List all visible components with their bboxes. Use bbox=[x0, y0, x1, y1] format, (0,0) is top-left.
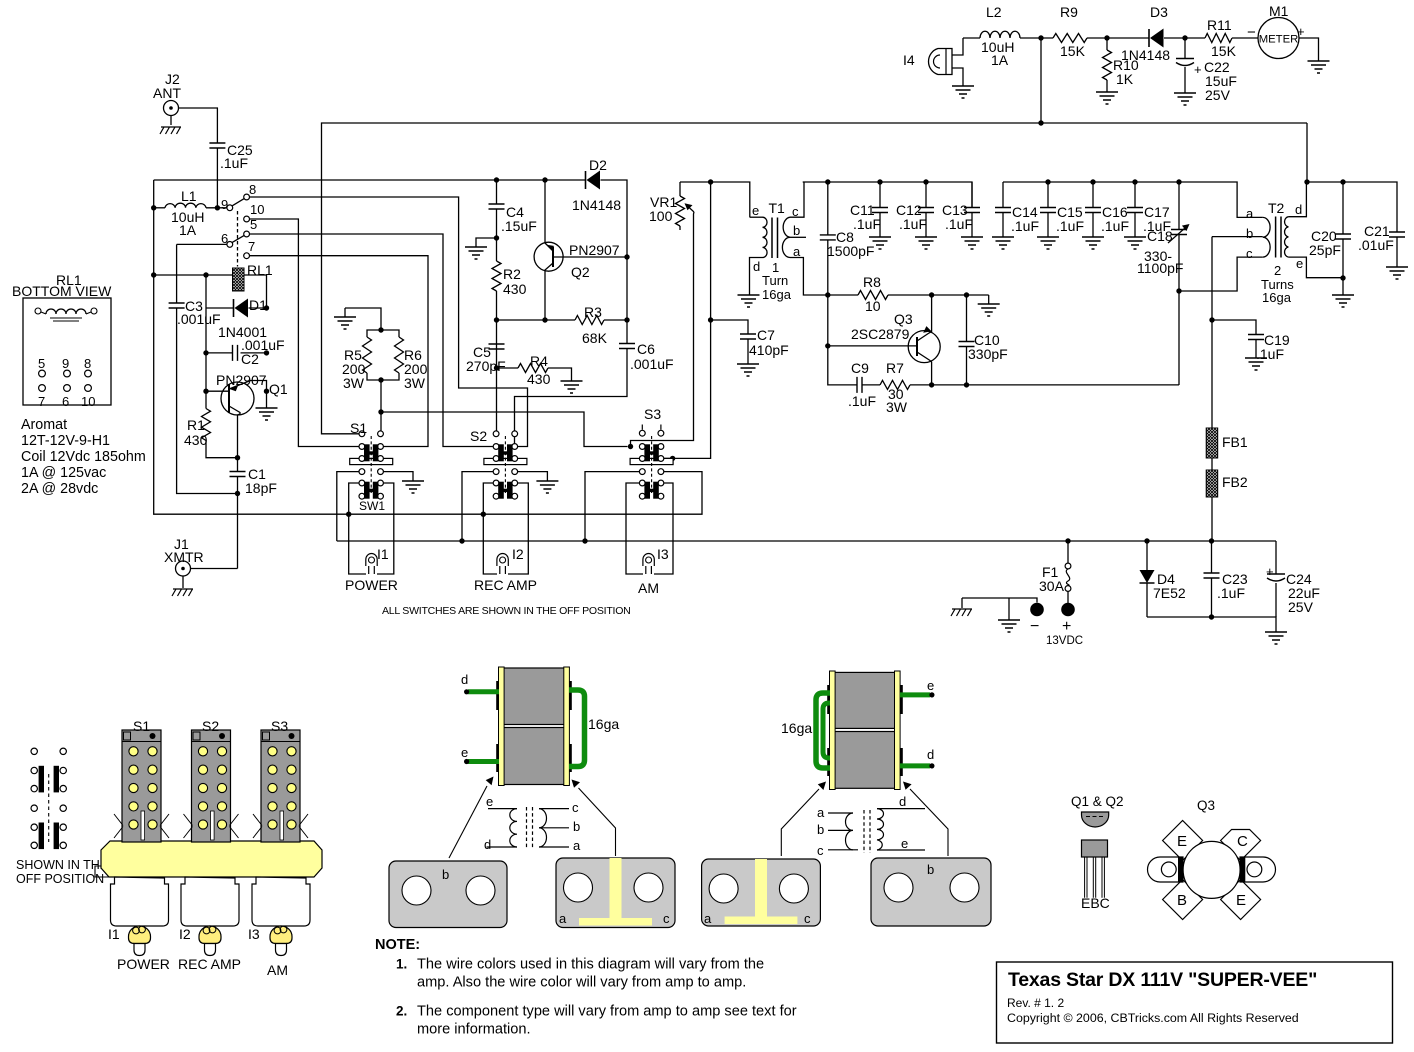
wire J2 to ground bbox=[170, 116, 172, 126]
svg-text:T2: T2 bbox=[1268, 200, 1285, 216]
svg-text:I1: I1 bbox=[108, 926, 120, 942]
svg-text:b: b bbox=[817, 822, 824, 837]
svg-text:The component type will vary f: The component type will vary from amp to… bbox=[417, 1004, 797, 1020]
svg-text:AM: AM bbox=[267, 962, 288, 978]
node L2/R9 meter feed bbox=[1038, 35, 1043, 40]
capacitor C12 bbox=[925, 182, 927, 208]
svg-text:10: 10 bbox=[81, 394, 95, 409]
svg-text:410pF: 410pF bbox=[749, 342, 789, 358]
node C20 top bbox=[1340, 179, 1345, 184]
resistor R3 bbox=[575, 316, 604, 325]
switch S3 section 2 contacts bbox=[639, 480, 645, 486]
transformer T2 physical wire e (green) bbox=[900, 692, 930, 697]
node C4/R2 bbox=[494, 235, 499, 240]
capacitor C23 bbox=[1211, 541, 1213, 573]
wire to L2 bbox=[963, 37, 980, 39]
svg-text:AM: AM bbox=[638, 580, 659, 596]
svg-text:R2: R2 bbox=[503, 266, 521, 282]
node Q3 emitter bottom bbox=[929, 382, 934, 387]
svg-text:METER: METER bbox=[1259, 34, 1299, 46]
physical switch S3 contact holes bbox=[268, 747, 277, 756]
svg-text:a: a bbox=[559, 911, 567, 926]
node C16 top bbox=[1090, 179, 1095, 184]
svg-text:b: b bbox=[573, 819, 580, 834]
svg-text:d: d bbox=[1295, 202, 1302, 217]
physical switch S2 slot and tabs bbox=[211, 811, 215, 840]
lamp I4 bbox=[929, 49, 952, 75]
node C8 top bbox=[825, 179, 830, 184]
node Q3 collector top bbox=[929, 292, 934, 297]
svg-text:7: 7 bbox=[38, 394, 45, 409]
switch S2 section 1 contacts bbox=[493, 444, 499, 450]
lamp box I3 bbox=[626, 483, 643, 574]
transformer T1 physical loop (green) bbox=[569, 690, 585, 767]
T1 winding schematic core dashed bbox=[527, 807, 533, 849]
svg-text:I1: I1 bbox=[377, 546, 389, 562]
svg-text:a: a bbox=[704, 911, 712, 926]
wire R2 to C5 bbox=[496, 291, 498, 344]
resistor R9 bbox=[1053, 34, 1087, 43]
title block box bbox=[997, 962, 1393, 1043]
wire minus jack to grounds bbox=[962, 598, 1037, 603]
svg-text:8: 8 bbox=[249, 182, 256, 197]
svg-text:R1: R1 bbox=[187, 417, 205, 433]
capacitor C22 (polarized) bbox=[1184, 38, 1186, 59]
svg-text:e: e bbox=[752, 203, 759, 218]
wire I4 bottom leg bbox=[952, 68, 963, 86]
off-position symbol section B bbox=[39, 823, 44, 850]
node Q1 collector / C1 bbox=[235, 455, 240, 460]
Q1 emitter with arrow bbox=[229, 381, 267, 392]
ground near 13VDC bbox=[998, 620, 1020, 632]
T1 winding schematic secondary bbox=[539, 809, 547, 847]
physical switch S1 slot and tabs bbox=[141, 811, 145, 840]
node VR1/T1/C7 top bbox=[708, 179, 713, 184]
relay contact pin 6 bbox=[227, 242, 233, 248]
node F1 tap bbox=[1065, 538, 1070, 543]
wire pin6 to C3 bbox=[177, 243, 227, 245]
capacitor C10 bbox=[966, 295, 968, 342]
ground below C20 bbox=[1332, 295, 1354, 307]
svg-text:S2: S2 bbox=[470, 428, 487, 444]
svg-text:.1uF: .1uF bbox=[1256, 346, 1284, 362]
switch S2 symbol bbox=[493, 431, 499, 437]
svg-text:Rev. # 1. 2: Rev. # 1. 2 bbox=[1007, 996, 1064, 1010]
wire T1 c up to rail bbox=[790, 182, 804, 217]
variable capacitor C18 bbox=[1178, 182, 1180, 230]
off-position switch symbol bbox=[31, 748, 37, 754]
node C18 bottom bbox=[1176, 288, 1181, 293]
resistor R1 bbox=[202, 409, 211, 441]
node C10 bottom bbox=[964, 382, 969, 387]
node S3 right wire junction bbox=[670, 456, 675, 461]
transformer T1 secondary bbox=[782, 217, 790, 257]
svg-text:c: c bbox=[804, 911, 811, 926]
wire R3 to C6 bbox=[604, 319, 627, 321]
svg-text:9: 9 bbox=[62, 356, 69, 371]
node Q2 base junction bbox=[624, 254, 629, 259]
Q1/Q2 package TO-92 body bbox=[1082, 840, 1108, 857]
T1 winding schematic primary bbox=[510, 809, 517, 847]
ground feeding R5/R6 bbox=[334, 317, 356, 329]
svg-text:L1: L1 bbox=[181, 188, 197, 204]
ground right of S1 bbox=[402, 481, 424, 493]
svg-text:I3: I3 bbox=[657, 546, 669, 562]
wire RL1 coil top feed y=275 bbox=[154, 274, 233, 276]
svg-text:REC AMP: REC AMP bbox=[474, 577, 537, 593]
capacitor C15 bbox=[1047, 182, 1049, 208]
node C15 top bbox=[1045, 179, 1050, 184]
svg-text:c: c bbox=[817, 843, 824, 858]
node rail junction bbox=[1038, 120, 1043, 125]
node L1 left junction bbox=[151, 205, 156, 210]
node C17 top bbox=[1132, 179, 1137, 184]
switch S1 symbol bbox=[359, 431, 365, 437]
capacitor C13 bbox=[971, 182, 973, 208]
svg-text:PN2907: PN2907 bbox=[216, 372, 267, 388]
capacitor C4 bbox=[496, 180, 498, 204]
svg-text:C6: C6 bbox=[637, 341, 655, 357]
banana jack plus (13VDC) bbox=[1061, 603, 1075, 617]
svg-text:SHOWN IN THE: SHOWN IN THE bbox=[16, 858, 108, 872]
svg-text:ANT: ANT bbox=[153, 85, 181, 101]
svg-text:The wire colors used in this d: The wire colors used in this diagram wil… bbox=[417, 957, 764, 973]
connector drawing b-left bbox=[389, 861, 507, 928]
svg-text:3W: 3W bbox=[343, 375, 365, 391]
ground right of S2 bbox=[536, 481, 558, 493]
svg-text:S2: S2 bbox=[202, 718, 219, 734]
wire R4 to ground bbox=[548, 368, 572, 381]
svg-text:I2: I2 bbox=[512, 546, 524, 562]
ground under J1 bbox=[172, 589, 193, 596]
wire top feed from y=123 rail down to T2 node bbox=[1306, 123, 1308, 182]
wire to ground std bbox=[1008, 598, 1010, 620]
node C12 top bbox=[923, 179, 928, 184]
Q1/Q2 package leads bbox=[1085, 857, 1087, 898]
svg-text:.1uF: .1uF bbox=[848, 393, 876, 409]
wire S2 below-plate left to rail bbox=[462, 472, 496, 541]
relay contact pin 8 bbox=[244, 194, 250, 200]
transformer T1 physical laminations bbox=[496, 681, 499, 710]
transformer T2 core bbox=[1276, 217, 1281, 258]
physical switch S1 lamp bulb bbox=[129, 926, 151, 944]
switch S2 below-plate contacts bbox=[493, 469, 499, 475]
ground below C4 bbox=[465, 247, 487, 259]
svg-text:1A: 1A bbox=[179, 222, 197, 238]
capacitor C21 bbox=[1389, 232, 1405, 237]
wire x=206 vertical (D1/C2/Q1 base/R1) bbox=[205, 275, 207, 409]
switch S3 mounting plate bbox=[630, 458, 673, 464]
wire pin7 to S1 section1 right bbox=[250, 256, 429, 447]
physical switch S3 lamp bulb bbox=[270, 926, 292, 944]
wire C2 right bbox=[241, 352, 267, 354]
svg-text:330pF: 330pF bbox=[968, 346, 1008, 362]
svg-text:12T-12V-9-H1: 12T-12V-9-H1 bbox=[21, 433, 110, 449]
svg-text:.1uF: .1uF bbox=[853, 216, 881, 232]
svg-text:C2: C2 bbox=[241, 351, 259, 367]
wire Q3 base bbox=[828, 345, 917, 347]
physical switch S2 white housing bbox=[181, 877, 239, 926]
Q3 tab E top-left bbox=[1163, 821, 1203, 861]
node Q1 base junction bbox=[203, 389, 208, 394]
resistor R10 bbox=[1103, 50, 1112, 80]
svg-text:PN2907: PN2907 bbox=[569, 242, 620, 258]
wire pin8 to S2 right bbox=[250, 197, 528, 447]
svg-text:c: c bbox=[572, 800, 579, 815]
svg-text:430: 430 bbox=[503, 281, 527, 297]
switch S1 dashed actuator bbox=[370, 436, 372, 495]
capacitor C3 bbox=[176, 244, 178, 303]
resistor R4 bbox=[518, 364, 548, 373]
transformer T1 physical wire e (green) bbox=[468, 759, 499, 764]
node R10 top bbox=[1104, 35, 1109, 40]
wire C4 bottom to ground bbox=[476, 238, 497, 247]
wire R1 bottom to Q1 collector bbox=[206, 441, 238, 458]
wire bottom negative bus bbox=[1147, 617, 1276, 632]
svg-text:c: c bbox=[1246, 246, 1253, 261]
svg-text:R8: R8 bbox=[863, 274, 881, 290]
meter M1 bbox=[1258, 18, 1299, 59]
svg-text:C9: C9 bbox=[851, 360, 869, 376]
svg-text:68K: 68K bbox=[582, 330, 608, 346]
svg-text:S1: S1 bbox=[350, 420, 367, 436]
svg-text:1N4148: 1N4148 bbox=[1121, 47, 1170, 63]
wire emitter to ground bbox=[266, 391, 268, 408]
lamp box I1 bbox=[349, 483, 366, 574]
svg-text:.1uF: .1uF bbox=[945, 216, 973, 232]
wire C3 to C1 bottom node bbox=[177, 308, 238, 494]
capacitor C19 bbox=[1212, 320, 1256, 335]
switch S3 symbol bbox=[642, 425, 661, 430]
svg-text:R7: R7 bbox=[886, 360, 904, 376]
transformer T1 core bbox=[772, 218, 778, 259]
svg-text:1A: 1A bbox=[991, 52, 1009, 68]
wire Q1 base bbox=[206, 390, 229, 392]
wire to D1 cathode bbox=[206, 307, 234, 309]
wire pin10 to S1 section1 left bbox=[250, 219, 365, 447]
capacitor C9 bbox=[857, 377, 862, 393]
physical switch S1 body bbox=[122, 730, 161, 842]
svg-text:+: + bbox=[1266, 564, 1274, 579]
wire D3 to R11 bbox=[1164, 37, 1205, 39]
switch S3 section 1 contacts bbox=[639, 444, 645, 450]
svg-text:NOTE:: NOTE: bbox=[375, 937, 420, 953]
svg-text:L2: L2 bbox=[986, 4, 1002, 20]
svg-text:10: 10 bbox=[250, 202, 264, 217]
off-position symbol dashed link bbox=[48, 774, 50, 842]
wire to R8 ground bbox=[988, 295, 990, 304]
capacitor C24 (polarized) bbox=[1275, 541, 1277, 574]
svg-text:a: a bbox=[1246, 206, 1254, 221]
diode D4 (7E52) bbox=[1146, 541, 1148, 570]
switch S3 section 2 poles bbox=[644, 482, 650, 499]
transformer T2 secondary bbox=[1285, 217, 1289, 257]
svg-text:e: e bbox=[901, 836, 908, 851]
resistor R5 bbox=[363, 337, 372, 373]
switch S1 below-plate contacts bbox=[359, 469, 365, 475]
svg-text:EBC: EBC bbox=[1081, 895, 1110, 911]
node C19 tap bbox=[1209, 317, 1214, 322]
relay arm 9-8 bbox=[232, 199, 244, 206]
wire R9 to D3 bbox=[1087, 37, 1149, 39]
ground at meter plus bbox=[1308, 61, 1330, 73]
capacitor C1 bbox=[237, 458, 239, 472]
ground below C21 bbox=[1386, 267, 1408, 279]
svg-text:d: d bbox=[461, 672, 468, 687]
node C20/T2e bbox=[1340, 275, 1345, 280]
svg-text:c: c bbox=[792, 204, 799, 219]
wire L2 to R9 bbox=[1020, 37, 1053, 39]
transistor Q3 (2SC2879) bbox=[908, 331, 940, 363]
physical switch S2 lamp tip bbox=[205, 944, 216, 956]
physical switch S1 white housing bbox=[111, 877, 169, 926]
node D4 tap bbox=[1144, 538, 1149, 543]
node Q2 collector bbox=[542, 317, 547, 322]
relay actuator dashed link bbox=[237, 211, 239, 267]
ground at R8 right bbox=[978, 304, 1000, 316]
svg-text:6: 6 bbox=[62, 394, 69, 409]
svg-text:1A @ 125vac: 1A @ 125vac bbox=[21, 465, 106, 481]
svg-text:d: d bbox=[484, 837, 491, 852]
svg-text:15K: 15K bbox=[1211, 43, 1237, 59]
arrow left to T2 core bbox=[781, 789, 819, 856]
node RL1 wire junction bbox=[151, 272, 156, 277]
svg-text:C: C bbox=[1237, 833, 1248, 850]
Q3 tab B bottom-left bbox=[1163, 880, 1203, 920]
node C11 top bbox=[877, 179, 882, 184]
svg-text:.001uF: .001uF bbox=[630, 356, 674, 372]
lamp I3 bbox=[643, 554, 654, 566]
wire meter to ground bbox=[1299, 38, 1319, 61]
svg-text:13VDC: 13VDC bbox=[1046, 635, 1083, 647]
resistor R2 bbox=[492, 261, 501, 291]
RL1 coil drawing bbox=[35, 308, 41, 314]
VR1 wiper arrow bbox=[688, 207, 694, 213]
relay contact pin 7 bbox=[244, 253, 250, 259]
ground under J2 bbox=[160, 127, 181, 134]
svg-text:8: 8 bbox=[84, 356, 91, 371]
ground below R10 bbox=[1096, 92, 1118, 104]
transformer T1 primary bbox=[750, 216, 763, 218]
transformer T2 physical wire d (green) bbox=[900, 763, 930, 768]
svg-text:Texas Star DX 111V "SUPER-VEE: Texas Star DX 111V "SUPER-VEE" bbox=[1008, 969, 1317, 991]
relay arm 6-5 bbox=[232, 235, 244, 242]
ground below C12 bbox=[915, 237, 937, 249]
ground below C22 bbox=[1174, 93, 1196, 105]
transformer T2 physical core bbox=[834, 672, 896, 728]
node R3/C6 bbox=[624, 317, 629, 322]
wire S2 below-plate right to ground bbox=[514, 472, 547, 481]
svg-text:POWER: POWER bbox=[345, 577, 398, 593]
physical switch S2 body bbox=[192, 730, 231, 842]
node S2 ground-rail junction bbox=[459, 538, 464, 543]
svg-text:Q3: Q3 bbox=[1197, 798, 1215, 813]
svg-text:18pF: 18pF bbox=[245, 480, 277, 496]
node C7 branch bbox=[708, 317, 713, 322]
transformer T1 physical bobbin flanges bbox=[499, 667, 505, 786]
wire VR1 top to T1 e bbox=[680, 182, 750, 217]
svg-text:E: E bbox=[1177, 833, 1187, 850]
ground below C17 bbox=[1124, 237, 1146, 249]
physical switch S3 lamp tip bbox=[276, 944, 287, 956]
svg-text:R3: R3 bbox=[584, 304, 602, 320]
diode D1 bbox=[233, 299, 235, 317]
wire T2 e to C20 bottom bbox=[1288, 257, 1343, 278]
svg-text:b: b bbox=[442, 867, 449, 882]
transformer T2 physical bobbin flanges bbox=[830, 671, 836, 790]
physical switch S2 contact holes bbox=[198, 747, 207, 756]
T2 winding schematic secondary bbox=[877, 809, 884, 850]
switch S2 section 2 contacts bbox=[493, 480, 499, 486]
wire C9 to R7 bbox=[862, 384, 880, 386]
switch S1 section 1 poles bbox=[364, 444, 370, 461]
node T2 d / C20 rail bbox=[1304, 179, 1309, 184]
svg-text:.1uF: .1uF bbox=[1056, 218, 1084, 234]
ground below C13 bbox=[961, 237, 983, 249]
svg-text:16ga: 16ga bbox=[588, 716, 619, 732]
physical switch S2 lamp bulb bbox=[199, 926, 221, 944]
wire meter feed down to rail bbox=[1040, 38, 1042, 123]
svg-text:FB1: FB1 bbox=[1222, 434, 1248, 450]
T2 winding schematic core dashed bbox=[864, 810, 870, 853]
svg-text:30A: 30A bbox=[1039, 578, 1065, 594]
switch S3 dashed actuator bbox=[651, 436, 653, 495]
svg-text:e: e bbox=[461, 745, 468, 760]
svg-text:M1: M1 bbox=[1269, 3, 1289, 19]
svg-text:R11: R11 bbox=[1207, 17, 1232, 33]
ferrite bead FB2 bbox=[1206, 470, 1218, 497]
node Q2 emitter top bbox=[542, 177, 547, 182]
svg-text:25pF: 25pF bbox=[1309, 242, 1341, 258]
svg-text:e: e bbox=[486, 794, 493, 809]
resistor R6 bbox=[395, 337, 404, 373]
svg-text:270pF: 270pF bbox=[466, 358, 506, 374]
svg-text:.1uF: .1uF bbox=[220, 155, 248, 171]
switch S2 section 2 poles bbox=[498, 482, 504, 499]
capacitor C5 bbox=[496, 344, 498, 349]
connector ac-right yellow trace bbox=[755, 859, 767, 917]
ground below C7 bbox=[737, 364, 759, 376]
svg-text:15K: 15K bbox=[1060, 43, 1086, 59]
wire R6 bottom bbox=[381, 373, 399, 380]
connector ac-left yellow trace bbox=[610, 858, 622, 919]
node D1/RL1 junction bbox=[264, 305, 269, 310]
inductor L1 bbox=[154, 207, 165, 209]
inductor L2 bbox=[980, 31, 1020, 38]
svg-text:I4: I4 bbox=[903, 52, 915, 68]
capacitor C7 bbox=[711, 320, 748, 334]
ground below C15 bbox=[1037, 237, 1059, 249]
svg-text:a: a bbox=[817, 805, 825, 820]
svg-text:D3: D3 bbox=[1150, 4, 1168, 20]
capacitor C17 bbox=[1134, 182, 1136, 208]
transformer T1 physical wire d (green) bbox=[468, 689, 499, 694]
svg-text:R4: R4 bbox=[530, 353, 548, 369]
node C5/R4 bbox=[494, 365, 499, 370]
svg-text:E: E bbox=[1236, 892, 1246, 909]
connector b-left holes bbox=[402, 876, 431, 905]
svg-text:e: e bbox=[927, 678, 934, 693]
svg-text:16ga: 16ga bbox=[781, 720, 812, 736]
wire D1 anode bbox=[249, 307, 267, 309]
svg-text:+: + bbox=[1297, 24, 1305, 39]
svg-text:Turn: Turn bbox=[762, 273, 788, 288]
svg-text:Coil 12Vdc 185ohm: Coil 12Vdc 185ohm bbox=[21, 449, 146, 465]
rake ground near 13VDC bbox=[951, 609, 972, 616]
node L1/C25/pin9 junction bbox=[215, 205, 220, 210]
transformer T1 physical core bbox=[503, 668, 566, 725]
svg-text:BOTTOM VIEW: BOTTOM VIEW bbox=[12, 283, 112, 299]
